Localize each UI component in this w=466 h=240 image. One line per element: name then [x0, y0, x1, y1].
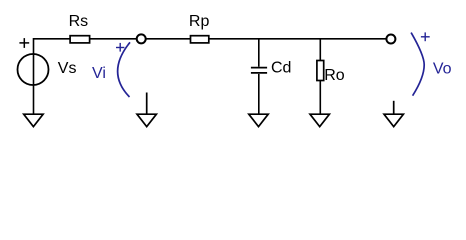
wire: Rs right to node circle: [90, 38, 136, 40]
output terminal circle: [386, 35, 395, 44]
Vo annotation arc: [411, 33, 424, 96]
ground under Ro: [310, 114, 329, 126]
Vo annotation plus sign: [421, 32, 430, 41]
svg-text:Ro: Ro: [324, 67, 345, 84]
ground for Vi reference: [137, 93, 156, 127]
capacitor Cd plates: [251, 68, 267, 73]
svg-text:Vi: Vi: [92, 65, 106, 82]
wire: Rp right to output terminal: [209, 38, 386, 40]
svg-text:Vs: Vs: [58, 60, 77, 77]
wire: source top corner to Rs left: [34, 39, 70, 55]
svg-text:Rp: Rp: [189, 13, 210, 30]
wire: Ro bottom to ground: [319, 81, 321, 115]
Vi annotation arc: [118, 42, 130, 97]
wire: top rail down to capacitor Cd: [258, 39, 260, 67]
ground under Cd: [249, 114, 268, 126]
voltage source Vs circle: [18, 54, 49, 85]
wire: vertical through source to ground: [33, 53, 35, 114]
plus sign of source Vs: [19, 38, 29, 48]
svg-text:Vo: Vo: [433, 61, 452, 78]
Vi annotation plus sign: [116, 43, 124, 52]
resistor Ro: [317, 61, 324, 81]
wire: node circle to Rp left: [146, 38, 190, 40]
svg-text:Cd: Cd: [271, 59, 291, 76]
resistor Rs: [70, 36, 90, 43]
wire: capacitor Cd to ground: [258, 74, 260, 114]
resistor Rp: [191, 36, 209, 43]
svg-text:Rs: Rs: [69, 13, 89, 30]
ground for Vo reference: [384, 101, 403, 127]
node circle (Vi terminal): [137, 34, 146, 43]
wire: top rail down to resistor Ro: [319, 39, 321, 61]
ground under source Vs: [24, 114, 43, 126]
